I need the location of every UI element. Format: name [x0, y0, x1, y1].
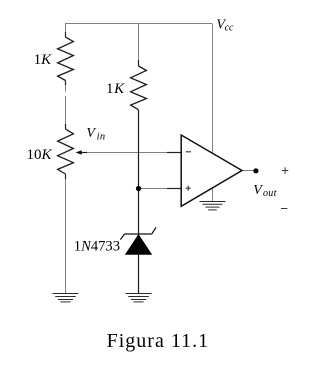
svg-text:10K: 10K	[27, 147, 53, 163]
svg-text:V: V	[253, 183, 263, 198]
svg-text:Figura 11.1: Figura 11.1	[107, 330, 209, 352]
svg-text:cc: cc	[225, 22, 234, 33]
svg-text:1N4733: 1N4733	[74, 238, 120, 254]
svg-text:out: out	[263, 188, 277, 199]
svg-text:V: V	[86, 126, 96, 141]
svg-text:1K: 1K	[106, 81, 125, 97]
svg-text:in: in	[97, 131, 106, 142]
svg-text:1K: 1K	[34, 52, 53, 68]
